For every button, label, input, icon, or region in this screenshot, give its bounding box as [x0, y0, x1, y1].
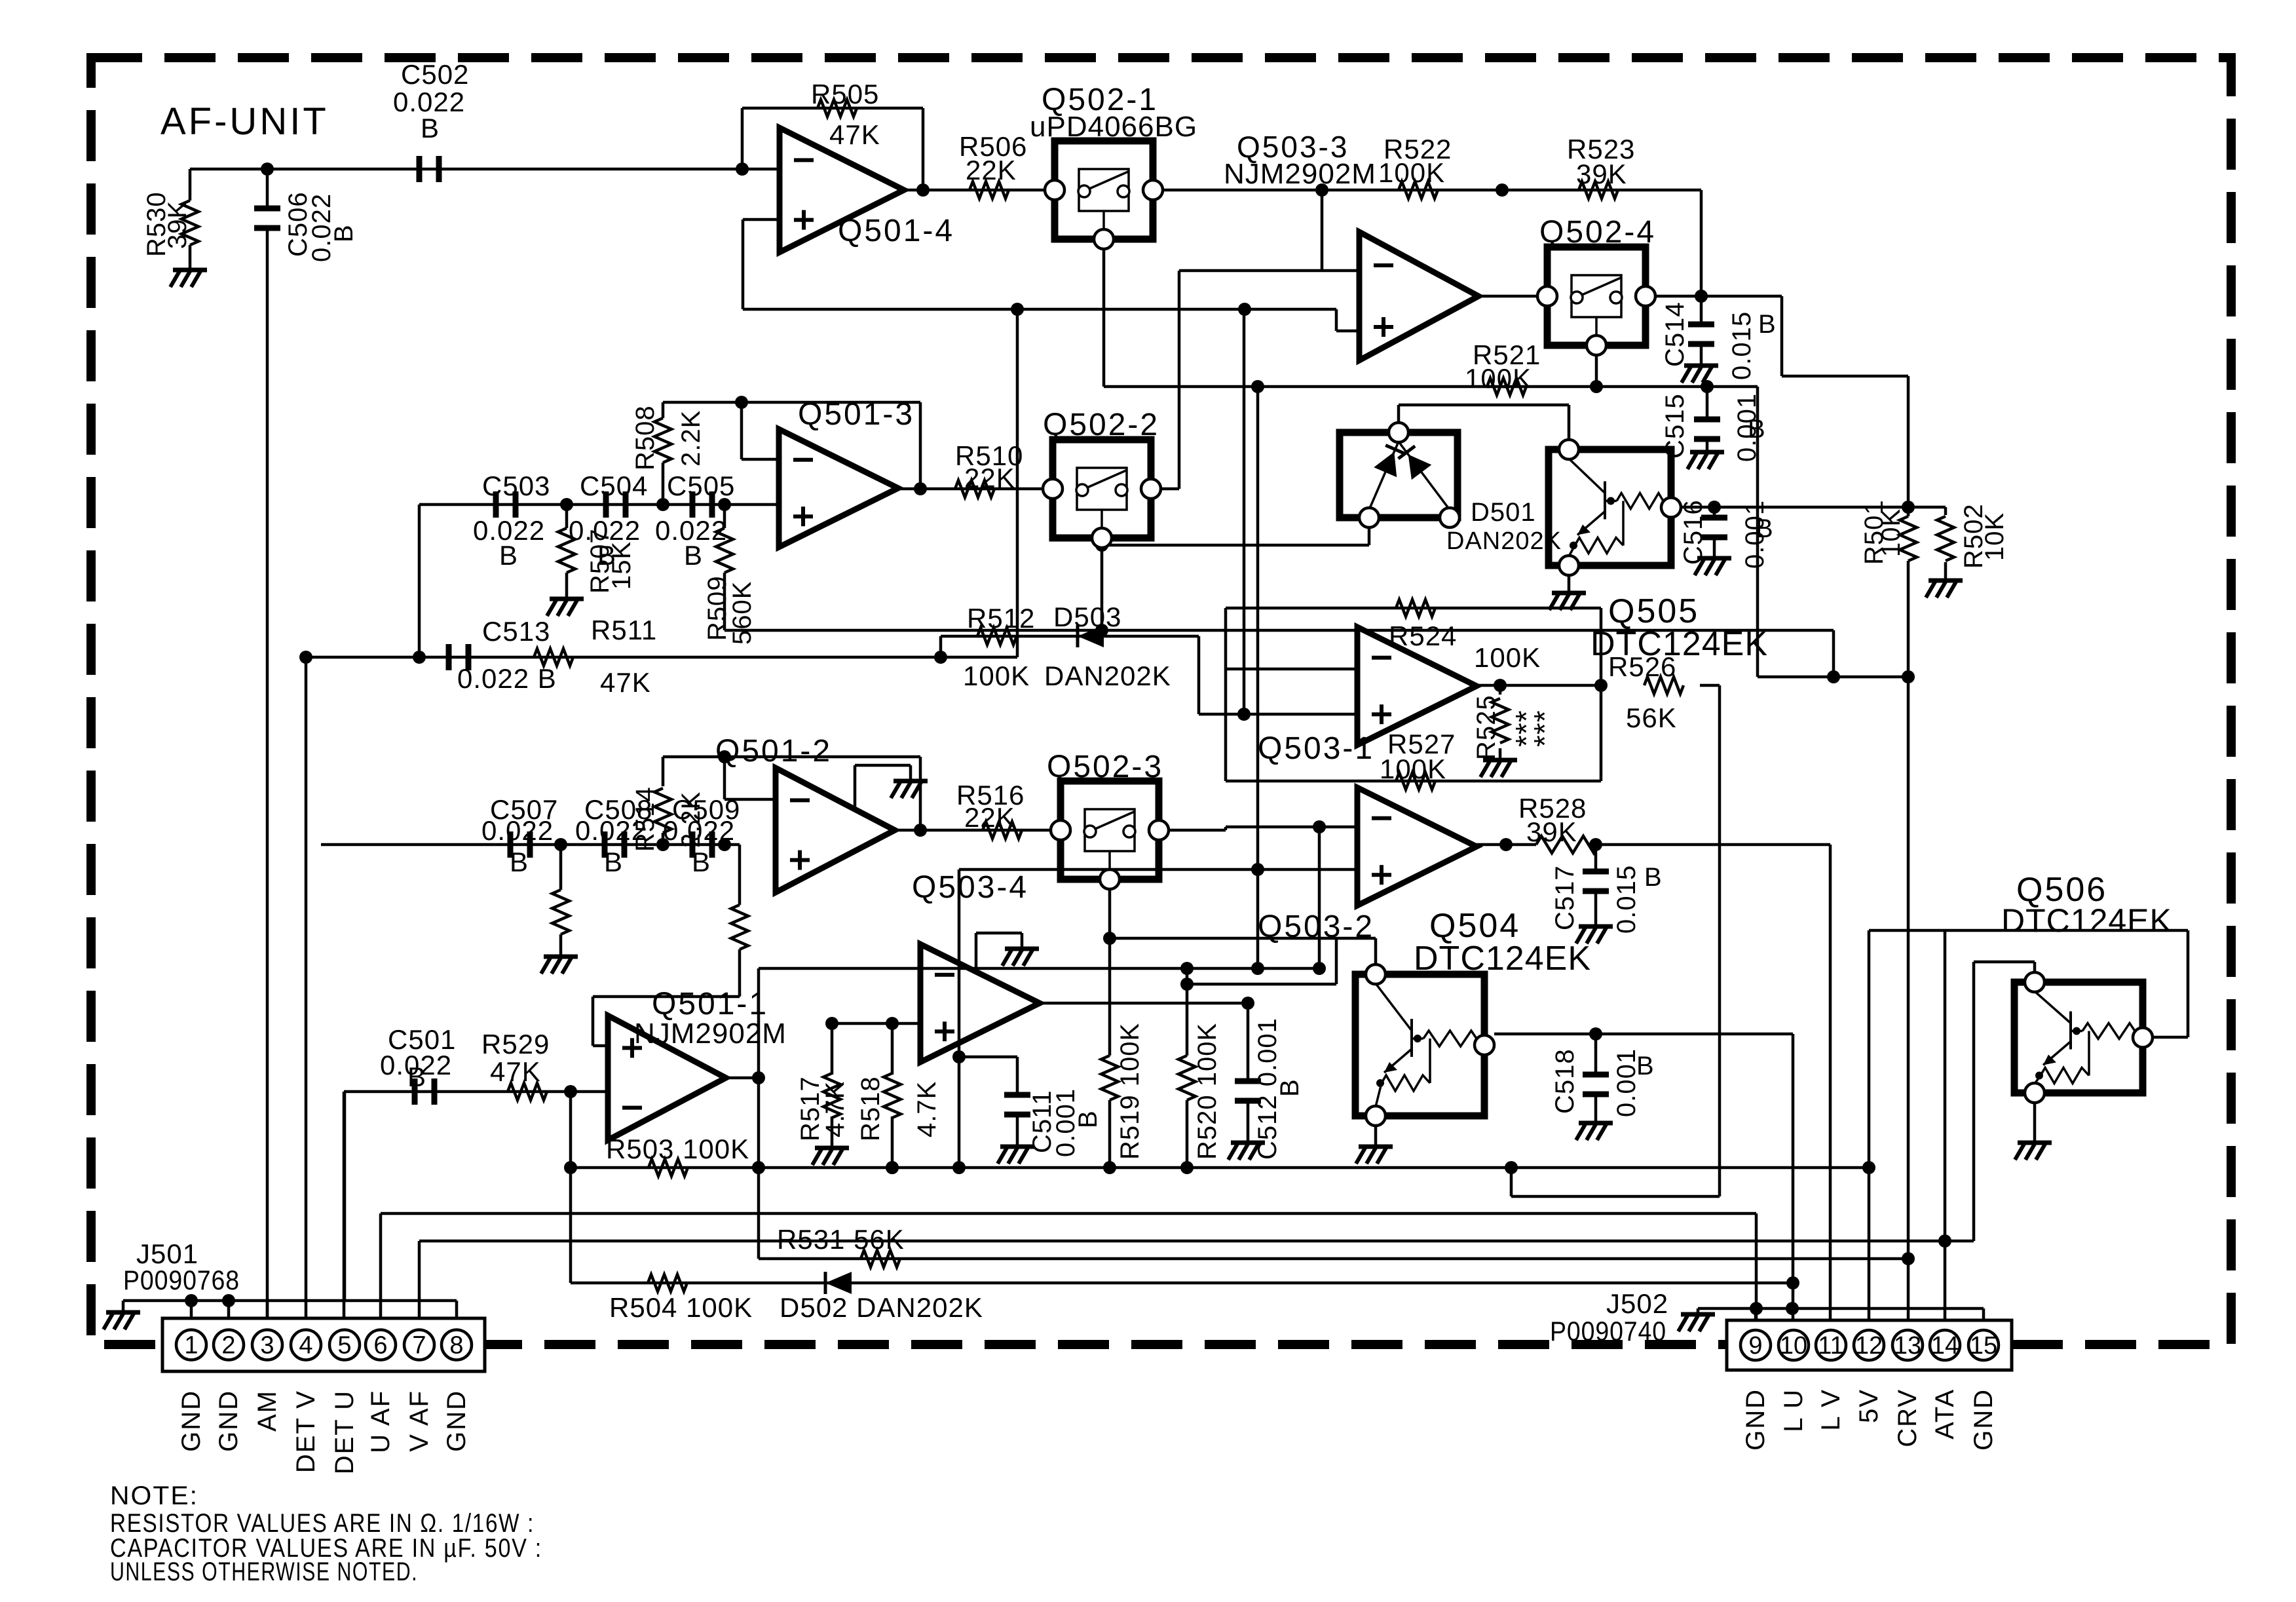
svg-text:L V: L V [1816, 1388, 1845, 1431]
svg-text:100K: 100K [1380, 753, 1446, 784]
svg-text:AM: AM [253, 1390, 282, 1432]
svg-text:R524: R524 [1389, 620, 1457, 651]
svg-text:2: 2 [221, 1332, 235, 1360]
svg-text:0.015: 0.015 [1727, 311, 1756, 380]
svg-text:56K: 56K [1626, 702, 1677, 733]
svg-text:B: B [407, 1061, 426, 1092]
svg-text:B: B [1748, 415, 1766, 444]
svg-text:R514: R514 [631, 786, 660, 852]
svg-text:uPD4066BG: uPD4066BG [1030, 111, 1197, 143]
svg-text:DTC124EK: DTC124EK [1414, 940, 1591, 978]
svg-text:B: B [499, 540, 518, 571]
svg-text:22K: 22K [964, 802, 1015, 833]
svg-text:47K: 47K [490, 1056, 541, 1087]
svg-text:GND: GND [214, 1390, 243, 1452]
svg-text:3: 3 [260, 1332, 274, 1360]
svg-text:NJM2902M: NJM2902M [1224, 158, 1376, 190]
svg-text:D502 DAN202K: D502 DAN202K [780, 1292, 983, 1323]
svg-text:C514: C514 [1661, 301, 1689, 367]
svg-text:U AF: U AF [366, 1390, 395, 1453]
svg-text:B: B [1074, 1110, 1102, 1128]
svg-text:15: 15 [1970, 1332, 1997, 1360]
svg-text:B: B [421, 113, 440, 143]
svg-text:2.2K: 2.2K [677, 791, 706, 848]
svg-text:0.022 B: 0.022 B [457, 663, 557, 694]
svg-text:D503: D503 [1053, 601, 1121, 632]
svg-text:R504 100K: R504 100K [609, 1292, 753, 1323]
svg-text:5V: 5V [1854, 1388, 1883, 1423]
svg-text:R518: R518 [856, 1076, 885, 1141]
svg-text:R512: R512 [967, 603, 1035, 634]
svg-text:Q502-4: Q502-4 [1539, 215, 1656, 250]
svg-text:R529: R529 [481, 1029, 550, 1059]
svg-text:V AF: V AF [405, 1390, 434, 1452]
svg-text:C503: C503 [482, 470, 550, 501]
svg-text:Q501-3: Q501-3 [798, 397, 914, 432]
svg-text:Q501-4: Q501-4 [838, 214, 954, 248]
svg-text:ATA: ATA [1930, 1388, 1959, 1440]
svg-text:22K: 22K [964, 463, 1015, 493]
svg-text:R511: R511 [591, 615, 657, 645]
svg-text:DAN202K: DAN202K [1446, 527, 1562, 555]
svg-text:Q503-1: Q503-1 [1258, 731, 1374, 766]
svg-text:B: B [329, 224, 358, 242]
svg-text:C516: C516 [1679, 499, 1708, 565]
svg-text:DET U: DET U [330, 1390, 359, 1474]
svg-text:R503 100K: R503 100K [606, 1134, 749, 1164]
svg-text:R520 100K: R520 100K [1193, 1023, 1222, 1160]
svg-text:47K: 47K [829, 119, 880, 150]
svg-text:2.2K: 2.2K [677, 410, 706, 467]
svg-text:10: 10 [1780, 1332, 1807, 1360]
svg-text:100K: 100K [1378, 157, 1445, 188]
svg-text:39K: 39K [163, 200, 192, 249]
svg-text:Q501-2: Q501-2 [715, 734, 832, 769]
svg-text:GND: GND [177, 1390, 206, 1452]
svg-text:***: *** [1528, 710, 1562, 747]
svg-text:Q502-3: Q502-3 [1047, 750, 1163, 784]
svg-text:9: 9 [1748, 1332, 1762, 1360]
svg-text:B: B [1636, 1052, 1655, 1080]
svg-text:15K: 15K [607, 541, 636, 590]
svg-text:39K: 39K [1576, 159, 1627, 189]
svg-text:5: 5 [337, 1332, 351, 1360]
svg-text:7: 7 [412, 1332, 426, 1360]
svg-text:100K: 100K [1474, 642, 1541, 673]
svg-text:0.022: 0.022 [481, 815, 554, 846]
svg-text:CRV: CRV [1893, 1388, 1922, 1447]
svg-text:C505: C505 [667, 470, 735, 501]
svg-text:B: B [684, 540, 703, 571]
svg-text:P0090740: P0090740 [1550, 1316, 1666, 1346]
svg-text:R508: R508 [631, 405, 660, 470]
svg-text:R526: R526 [1608, 651, 1676, 682]
svg-text:B: B [1275, 1078, 1304, 1097]
svg-text:C518: C518 [1551, 1048, 1579, 1114]
svg-text:B: B [692, 847, 711, 877]
svg-text:Q503-4: Q503-4 [912, 870, 1028, 905]
svg-text:GND: GND [1741, 1388, 1770, 1451]
svg-text:Q503-2: Q503-2 [1258, 909, 1374, 944]
svg-text:47K: 47K [600, 667, 651, 698]
svg-text:C515: C515 [1661, 393, 1689, 459]
svg-text:R531 56K: R531 56K [777, 1224, 905, 1255]
svg-text:GND: GND [442, 1390, 471, 1452]
svg-text:J502: J502 [1606, 1288, 1668, 1319]
svg-text:B: B [1758, 310, 1777, 339]
svg-text:8: 8 [449, 1332, 463, 1360]
svg-text:P0090768: P0090768 [123, 1265, 240, 1295]
svg-text:100K: 100K [1465, 363, 1532, 394]
svg-text:B: B [604, 847, 623, 877]
svg-text:NJM2902M: NJM2902M [634, 1018, 787, 1050]
svg-text:C504: C504 [580, 470, 648, 501]
svg-text:Q501-1: Q501-1 [652, 987, 768, 1021]
svg-text:C517: C517 [1551, 865, 1579, 930]
svg-text:10K: 10K [1877, 508, 1906, 557]
svg-text:14: 14 [1931, 1332, 1959, 1360]
svg-text:R519 100K: R519 100K [1116, 1023, 1144, 1160]
svg-text:1: 1 [184, 1332, 198, 1360]
svg-text:12: 12 [1855, 1332, 1883, 1360]
svg-text:B: B [1756, 514, 1774, 543]
svg-text:DTC124EK: DTC124EK [2001, 902, 2172, 939]
svg-text:0.015: 0.015 [1612, 865, 1641, 934]
svg-text:B: B [1644, 863, 1663, 892]
svg-text:10K: 10K [1980, 512, 2009, 561]
svg-text:4.7K: 4.7K [821, 1081, 850, 1137]
svg-text:C502: C502 [401, 59, 469, 90]
svg-text:D501: D501 [1471, 498, 1536, 527]
svg-text:560K: 560K [728, 581, 757, 645]
svg-text:C513: C513 [482, 616, 550, 647]
svg-text:NOTE:: NOTE: [110, 1481, 198, 1510]
svg-text:B: B [510, 847, 529, 877]
svg-text:11: 11 [1818, 1332, 1843, 1360]
svg-text:AF-UNIT: AF-UNIT [160, 100, 329, 143]
svg-text:13: 13 [1894, 1332, 1921, 1360]
svg-text:6: 6 [373, 1332, 387, 1360]
svg-text:100K: 100K [963, 660, 1030, 691]
svg-text:GND: GND [1969, 1388, 1998, 1451]
svg-text:L U: L U [1779, 1388, 1808, 1432]
svg-text:4.7K: 4.7K [913, 1081, 941, 1137]
svg-text:DAN202K: DAN202K [1044, 660, 1171, 691]
svg-text:DET V: DET V [292, 1390, 320, 1473]
svg-text:R525: R525 [1472, 695, 1501, 760]
svg-text:R505: R505 [811, 79, 879, 109]
svg-text:UNLESS OTHERWISE NOTED.: UNLESS OTHERWISE NOTED. [110, 1557, 418, 1586]
svg-text:Q502-2: Q502-2 [1043, 408, 1159, 442]
svg-text:22K: 22K [966, 155, 1017, 185]
svg-text:39K: 39K [1526, 816, 1577, 847]
svg-text:4: 4 [299, 1332, 312, 1360]
